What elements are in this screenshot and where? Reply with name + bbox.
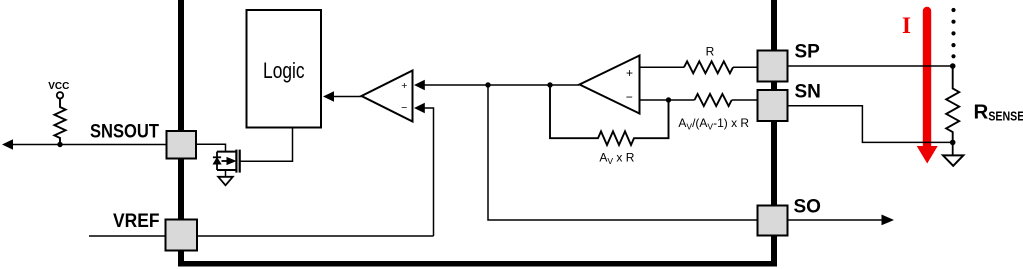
wire comparator + input bbox=[423, 84, 579, 86]
resistor R bbox=[684, 61, 733, 73]
arrowhead comparator - input bbox=[414, 103, 425, 114]
svg-text:VCC: VCC bbox=[48, 81, 69, 92]
comparator U1 bbox=[362, 71, 413, 122]
SO output arrowhead bbox=[882, 215, 895, 226]
wire resistor R to SP pin bbox=[733, 66, 758, 68]
svg-text:+: + bbox=[401, 80, 407, 92]
current arrow I (red) bbox=[917, 11, 938, 164]
svg-text:VREF: VREF bbox=[113, 211, 160, 232]
VREF wire pin to comparator bbox=[197, 235, 434, 237]
SNSOUT wire bbox=[12, 144, 167, 146]
wire op-amp + to resistor R bbox=[640, 66, 685, 68]
svg-text:Logic: Logic bbox=[263, 58, 305, 83]
op-amp U2 bbox=[580, 56, 640, 114]
svg-text:SP: SP bbox=[795, 42, 821, 63]
svg-text:−: − bbox=[401, 102, 407, 114]
wire node A to SO pin bbox=[488, 85, 758, 220]
MOSFET gate wire from Logic bbox=[240, 128, 293, 162]
junction dot D (SP node) bbox=[950, 63, 956, 69]
arrowhead comparator + input bbox=[414, 80, 425, 91]
comparator output arrowhead into Logic bbox=[323, 91, 334, 102]
SO output wire bbox=[788, 219, 882, 221]
svg-text:AV/(AV-1) x R: AV/(AV-1) x R bbox=[678, 116, 749, 132]
ground (MOSFET source) bbox=[218, 177, 233, 186]
right supply bus (thick vertical) bbox=[771, 0, 777, 267]
resistor AV/(AV-1) x R bbox=[695, 94, 732, 106]
junction dot (pull-up / SNSOUT wire) bbox=[57, 142, 62, 147]
resistor RSENSE bbox=[946, 66, 959, 142]
svg-text:SN: SN bbox=[795, 82, 821, 103]
svg-text:AV x R: AV x R bbox=[599, 151, 634, 167]
Logic block U3 bbox=[247, 10, 322, 128]
SN return wire bbox=[788, 106, 953, 143]
pull-down MOSFET Q1 (with body diode) bbox=[213, 150, 240, 173]
pin SP bbox=[758, 51, 788, 82]
svg-text:RSENSE: RSENSE bbox=[974, 101, 1023, 124]
comparator output wire bbox=[332, 96, 362, 98]
MOSFET source wire bbox=[225, 170, 227, 177]
svg-text:−: − bbox=[626, 90, 633, 104]
svg-text:R: R bbox=[706, 44, 715, 58]
wire comparator - input from VREF bbox=[423, 108, 434, 236]
bottom bus (thick horizontal) bbox=[178, 261, 777, 267]
svg-text:SNSOUT: SNSOUT bbox=[90, 121, 159, 142]
pin VREF bbox=[166, 220, 198, 251]
wire resistor to SN pin bbox=[732, 99, 758, 101]
SP wire to RSENSE bbox=[788, 65, 953, 67]
junction dot C (op-amp inverting input) bbox=[666, 97, 671, 102]
svg-text:+: + bbox=[626, 66, 633, 80]
feedback wire with resistor AV x R bbox=[550, 85, 669, 145]
junction dot B (feedback) bbox=[547, 82, 552, 87]
VREF wire left stub bbox=[89, 235, 166, 237]
ground (RSENSE) bbox=[943, 142, 963, 165]
svg-text:SO: SO bbox=[794, 196, 821, 217]
VCC terminal circle bbox=[57, 92, 63, 98]
junction dot A (to SO) bbox=[485, 82, 490, 87]
wire SNSOUT pin to MOSFET drain bbox=[196, 144, 226, 151]
svg-text:I: I bbox=[902, 13, 911, 38]
pin SO bbox=[758, 206, 788, 236]
left supply bus (thick vertical) bbox=[178, 0, 184, 267]
SNSOUT output arrowhead (left) bbox=[2, 139, 13, 150]
pull-up resistor R (VCC to SNSOUT) bbox=[54, 99, 65, 145]
pin SN bbox=[758, 90, 788, 121]
dotted line (load continuation) bbox=[951, 8, 955, 59]
junction dot E (RSENSE bottom) bbox=[950, 140, 956, 146]
pin SNSOUT bbox=[167, 131, 197, 159]
wire op-amp - to resistor bbox=[640, 99, 695, 101]
